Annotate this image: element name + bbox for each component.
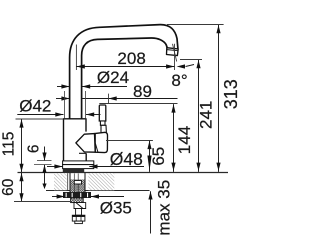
svg-text:Ø35: Ø35 <box>100 199 132 218</box>
dimension 115 line <box>21 119 23 172</box>
extension line at hose level <box>14 201 72 203</box>
dimension D42 <box>17 114 63 116</box>
hose connector piece B <box>74 203 86 209</box>
dimension 208 line <box>76 66 174 68</box>
extension line body top left <box>16 118 64 120</box>
countertop bottom line <box>46 190 150 192</box>
counter hatch left <box>54 173 67 190</box>
aerator at spout tip <box>167 48 179 56</box>
dimension D35 <box>52 196 65 198</box>
dimension 8deg arrow <box>186 65 195 67</box>
threaded shank through counter <box>70 180 85 194</box>
svg-text:Ø48: Ø48 <box>110 149 143 169</box>
extension line body right edge up <box>85 91 87 118</box>
spout outer contour <box>70 25 178 119</box>
svg-text:8°: 8° <box>171 71 187 90</box>
svg-text:60: 60 <box>0 178 17 196</box>
base gasket dark band <box>63 169 84 173</box>
dimension 241 line <box>198 60 200 172</box>
extension line spout top for 313 <box>167 24 224 26</box>
svg-text:208: 208 <box>117 49 145 68</box>
cone boss between body and hub <box>76 134 95 153</box>
hose tube <box>76 209 82 216</box>
vertical extension line at spout tip <box>174 44 176 70</box>
spout axis extension line <box>75 45 77 71</box>
hose tail <box>75 221 83 224</box>
dimension 6 <box>44 147 46 161</box>
hole edge line left <box>67 173 69 190</box>
spout inner contour <box>82 38 168 119</box>
base plate upper <box>63 161 94 165</box>
extension line aerator for 241 <box>180 59 202 61</box>
dimension max35 <box>150 191 152 233</box>
hose connector piece A <box>71 198 84 203</box>
extension line grip top for 144 <box>99 103 177 105</box>
dimension 89 line <box>56 98 70 100</box>
8 degree slant axis line <box>173 44 177 62</box>
svg-text:Ø42: Ø42 <box>19 96 51 115</box>
extension line for 89 at handle <box>108 94 110 104</box>
svg-text:144: 144 <box>175 126 194 154</box>
svg-text:65: 65 <box>149 147 168 166</box>
svg-text:Ø24: Ø24 <box>97 68 129 87</box>
handle lever arm <box>101 125 106 133</box>
svg-text:6: 6 <box>25 144 42 153</box>
svg-text:241: 241 <box>197 101 216 129</box>
svg-text:89: 89 <box>133 82 152 101</box>
dimension 65 line <box>149 141 151 172</box>
hose nut <box>72 215 85 221</box>
counter hatch right <box>88 173 114 190</box>
countertop top line <box>18 172 229 174</box>
extension line hub right for 65 <box>106 140 153 142</box>
handle grip <box>99 105 106 121</box>
body of faucet <box>64 119 87 161</box>
svg-text:max 35: max 35 <box>154 180 173 236</box>
handle hub <box>95 132 108 152</box>
dimension 313 line <box>218 25 220 172</box>
extension line body left edge up <box>64 91 66 118</box>
dimension D24 line <box>57 86 70 88</box>
svg-text:313: 313 <box>221 79 241 109</box>
mounting washer under counter <box>63 192 91 198</box>
handle neck <box>100 121 105 125</box>
dimension 144 line <box>173 104 175 172</box>
dimension D48 <box>47 166 63 168</box>
dimension 60 line <box>21 173 23 202</box>
svg-text:115: 115 <box>1 132 18 157</box>
base plate lower <box>63 165 94 169</box>
